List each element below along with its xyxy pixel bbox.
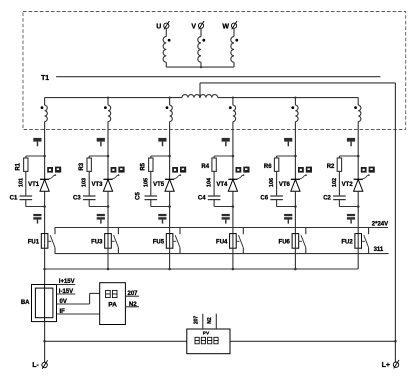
wire primary star point — [166, 66, 234, 68]
svg-text:FU3: FU3 — [91, 239, 103, 245]
wire 311 signal bus — [55, 253, 389, 255]
fuse FU3 — [91, 234, 111, 249]
wire L- bus to PV — [45, 340, 187, 342]
wire resistor to capacitor VT3, net 103 — [82, 171, 90, 196]
current transducer BA — [21, 285, 57, 322]
svg-text:VT3: VT3 — [91, 182, 103, 188]
gate terminal labels G2 K2 — [361, 167, 375, 173]
wire secondary winding to anode VT4 — [232, 122, 234, 179]
svg-text:I+15V: I+15V — [59, 279, 75, 285]
capacitor C2 — [323, 195, 345, 201]
fuse microswitch contact FU3 — [111, 228, 118, 254]
resistor R1 — [16, 158, 28, 171]
svg-text:N2: N2 — [129, 302, 137, 308]
wire cathode to fuse VT3 — [107, 191, 109, 233]
fuse microswitch contact FU4 — [236, 228, 243, 254]
svg-text:PV: PV — [203, 331, 210, 337]
wire fuse to cathode bus VT2 — [357, 248, 359, 269]
fuse microswitch contact FU5 — [173, 228, 180, 254]
primary winding W of T1 — [231, 37, 238, 63]
thyristor VT5 — [153, 179, 174, 191]
wire snubber bottom VT6 — [277, 200, 297, 208]
interphase reactor coil — [182, 95, 218, 98]
wire fuse to cathode bus VT5 — [168, 248, 171, 270]
capacitor C1 — [10, 195, 32, 201]
svg-text:104: 104 — [207, 177, 213, 187]
terminal L- — [32, 360, 47, 369]
wire secondary bus stub branch VT3 — [107, 97, 109, 106]
svg-text:PA: PA — [108, 302, 117, 309]
svg-text:R6: R6 — [264, 164, 272, 170]
primary winding V of T1 — [198, 37, 205, 63]
wire snubber top VT4 — [214, 155, 234, 158]
svg-text:R2: R2 — [327, 164, 335, 170]
wire snubber bottom VT2 — [339, 200, 359, 208]
node label 1W — [158, 138, 166, 146]
svg-text:BA: BA — [21, 300, 30, 306]
terminal W — [222, 21, 237, 30]
gate lead VT4 — [237, 174, 244, 179]
wire secondary bus left — [45, 97, 182, 99]
node label 2W1 — [347, 214, 355, 224]
svg-text:W: W — [222, 23, 229, 30]
wire PV input 207 — [194, 314, 203, 329]
svg-text:311: 311 — [374, 247, 384, 253]
resistor R2 — [327, 158, 342, 171]
wire I-15V stub — [57, 289, 76, 295]
ammeter PA — [100, 283, 126, 325]
wire primary winding W to star point — [233, 62, 235, 67]
resistor R4 — [201, 158, 216, 171]
thyristor VT1 — [28, 179, 49, 191]
svg-text:R4: R4 — [201, 164, 209, 170]
svg-text:VT2: VT2 — [342, 182, 354, 188]
wire secondary bus stub branch VT6 — [294, 97, 296, 106]
capacitor C3 — [73, 195, 95, 201]
net label 2*24V — [372, 222, 388, 228]
svg-text:R1: R1 — [16, 162, 22, 170]
primary winding U of T1 — [163, 37, 170, 63]
wire secondary bus stub branch VT4 — [232, 97, 234, 106]
wire secondary bus stub branch VT1 — [44, 98, 46, 106]
resistor R5 — [141, 158, 153, 171]
svg-text:106: 106 — [269, 178, 275, 187]
svg-text:FU6: FU6 — [279, 239, 291, 245]
transformer core line — [56, 76, 380, 78]
resistor R6 — [264, 158, 279, 171]
wire IF to PA — [57, 309, 100, 315]
wire snubber bottom VT3 — [89, 200, 109, 208]
wire PV to L+ rail — [230, 340, 397, 343]
wire snubber bottom VT4 — [214, 200, 234, 208]
node label 2U1 — [222, 214, 230, 224]
wire primary winding U to star point — [165, 62, 167, 67]
svg-text:VT6: VT6 — [279, 182, 291, 188]
svg-text:L+: L+ — [382, 362, 390, 369]
fuse FU6 — [279, 234, 299, 249]
wire secondary winding to anode VT3 — [107, 122, 109, 179]
svg-text:C4: C4 — [198, 195, 206, 201]
wire cathode bus — [45, 268, 359, 270]
wire resistor to capacitor VT5, net 105 — [143, 171, 151, 196]
wire resistor to capacitor VT4, net 104 — [207, 171, 215, 196]
svg-text:C2: C2 — [323, 195, 331, 201]
wire snubber top VT5 — [151, 155, 171, 158]
wire secondary bus stub branch VT2 — [357, 98, 359, 106]
wire center-tap to L+ rail — [200, 83, 395, 362]
wire cathode to fuse VT1 — [44, 191, 46, 233]
secondary winding VT1 branch — [41, 105, 48, 121]
wire fuse to cathode bus VT6 — [294, 248, 297, 270]
svg-text:FU5: FU5 — [153, 239, 165, 245]
secondary winding VT2 branch — [354, 105, 361, 121]
svg-text:VT5: VT5 — [153, 182, 165, 188]
gate lead VT3 — [112, 174, 119, 179]
wire secondary winding to anode VT5 — [169, 122, 171, 179]
wire snubber top VT1 — [26, 155, 46, 158]
secondary winding VT6 branch — [291, 105, 298, 121]
svg-text:R5: R5 — [141, 162, 147, 170]
wire snubber top VT2 — [339, 155, 359, 158]
fuse FU4 — [216, 234, 236, 249]
wire cathode bus to shunt BA — [43, 268, 46, 285]
svg-text:C5: C5 — [136, 192, 142, 200]
wire snubber top VT3 — [89, 155, 109, 158]
wire I+15V stub — [57, 279, 76, 285]
node label 1V1 — [97, 214, 105, 224]
svg-text:R3: R3 — [79, 162, 85, 170]
wire secondary bus stub branch VT5 — [169, 97, 171, 106]
gate terminal labels G3 K3 — [111, 167, 125, 173]
thyristor VT4 — [216, 179, 237, 191]
gate lead VT2 — [363, 174, 370, 179]
terminal L+ — [382, 360, 399, 369]
gate terminal labels G5 K5 — [172, 167, 186, 173]
svg-text:U: U — [156, 23, 161, 30]
wire snubber top VT6 — [277, 155, 297, 158]
capacitor C5 — [136, 192, 158, 200]
svg-text:0V: 0V — [60, 299, 67, 305]
svg-text:207: 207 — [128, 291, 139, 297]
wire snubber bottom VT1 — [26, 200, 46, 208]
node label 1U — [33, 138, 41, 146]
terminal U — [156, 21, 169, 30]
net label 311 — [374, 247, 384, 253]
wire secondary winding to anode VT1 — [44, 122, 46, 179]
wire resistor to capacitor VT6, net 106 — [269, 171, 277, 196]
svg-text:L-: L- — [32, 362, 39, 369]
svg-text:FU2: FU2 — [341, 239, 353, 245]
wire secondary winding to anode VT6 — [294, 122, 296, 179]
svg-text:2*24V: 2*24V — [372, 222, 388, 228]
gate terminal labels G1 K1 — [47, 167, 61, 173]
thyristor VT3 — [91, 179, 112, 191]
fuse FU5 — [153, 234, 173, 249]
wire PA output N2 — [125, 302, 138, 308]
gate lead VT1 — [49, 174, 56, 179]
node label 2V — [284, 138, 292, 146]
gate terminal labels G4 K4 — [236, 167, 250, 173]
node label 1U1 — [33, 214, 41, 224]
secondary winding VT5 branch — [166, 105, 173, 121]
fuse FU1 — [28, 234, 48, 249]
svg-text:105: 105 — [143, 178, 149, 187]
terminal V — [191, 21, 204, 30]
svg-text:I-15V: I-15V — [59, 289, 73, 295]
gate lead VT6 — [300, 174, 307, 179]
node label 1V — [97, 138, 105, 146]
capacitor C4 — [198, 195, 220, 201]
wire secondary winding to anode VT2 — [357, 122, 359, 179]
wire cathode to fuse VT2 — [357, 191, 359, 233]
wire resistor to capacitor VT1, net 101 — [18, 171, 26, 196]
wire PA output 207 — [125, 291, 138, 297]
fuse microswitch contact FU2 — [361, 228, 368, 254]
svg-text:N2: N2 — [207, 317, 213, 324]
svg-text:207: 207 — [194, 316, 200, 325]
capacitor C6 — [260, 195, 282, 201]
wire cathode to fuse VT5 — [169, 191, 171, 233]
wire snubber bottom VT5 — [151, 200, 171, 208]
node label 2V1 — [284, 214, 292, 224]
thyristor VT2 — [342, 179, 363, 191]
thyristor VT6 — [279, 179, 300, 191]
fuse FU2 — [341, 234, 361, 249]
transformer T1 label — [41, 75, 49, 82]
wire 0V to PA — [57, 293, 100, 304]
wire fuse to cathode bus VT3 — [107, 248, 110, 270]
wire cathode to fuse VT6 — [294, 191, 296, 233]
svg-text:FU4: FU4 — [216, 239, 228, 245]
wire V terminal to primary winding — [200, 28, 202, 36]
svg-text:VT1: VT1 — [28, 182, 40, 188]
secondary winding VT4 branch — [229, 105, 236, 121]
svg-text:C6: C6 — [260, 195, 268, 201]
gate lead VT5 — [174, 174, 181, 179]
fuse microswitch contact FU1 — [48, 228, 55, 254]
svg-text:V: V — [191, 23, 196, 30]
svg-text:C3: C3 — [73, 195, 81, 201]
svg-text:C1: C1 — [10, 195, 18, 201]
wire secondary bus right — [218, 97, 358, 99]
svg-text:102: 102 — [332, 178, 338, 187]
wire 2*24V supervision bus — [55, 227, 388, 229]
svg-text:103: 103 — [82, 178, 88, 187]
wire fuse to cathode bus VT4 — [232, 248, 235, 270]
wire cathode to fuse VT4 — [232, 191, 234, 233]
wire fuse to cathode bus VT1 — [44, 248, 46, 269]
resistor R3 — [79, 158, 91, 171]
gate terminal labels G6 K6 — [298, 167, 312, 173]
svg-text:101: 101 — [18, 178, 24, 187]
voltmeter PV — [187, 329, 230, 354]
secondary winding VT3 branch — [104, 105, 111, 121]
node label 2U — [222, 138, 230, 146]
transformer T1 dashed enclosure — [23, 12, 406, 130]
svg-text:T1: T1 — [41, 75, 49, 82]
wire U terminal to primary winding — [165, 28, 167, 36]
wire BA to L- junction — [43, 322, 46, 363]
svg-text:IF: IF — [60, 309, 66, 315]
wire resistor to capacitor VT2, net 102 — [332, 171, 340, 196]
wire PV input N2 — [207, 314, 216, 329]
svg-text:FU1: FU1 — [28, 239, 40, 245]
svg-text:VT4: VT4 — [216, 182, 228, 188]
node label 2W — [347, 138, 355, 146]
wire W terminal to primary winding — [233, 28, 235, 36]
wire primary winding V to star point — [200, 62, 202, 67]
fuse microswitch contact FU6 — [299, 228, 306, 254]
wire center-tap drop — [199, 83, 201, 98]
node label 1W1 — [158, 214, 166, 224]
